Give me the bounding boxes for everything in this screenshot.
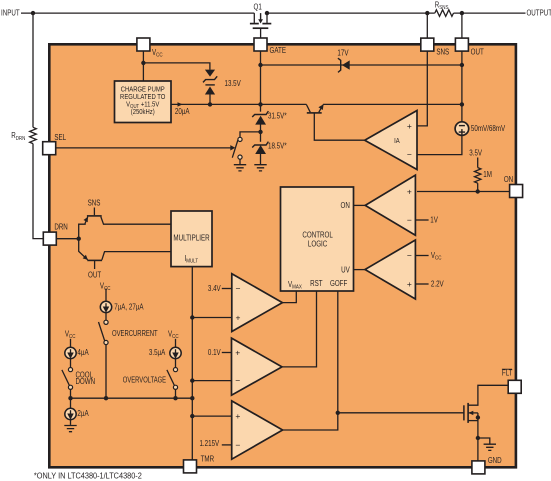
svg-text:IA: IA [394, 137, 400, 145]
svg-text:LOGIC: LOGIC [308, 241, 327, 249]
svg-text:31.5V*: 31.5V* [268, 113, 287, 121]
svg-text:Q1: Q1 [254, 4, 262, 12]
svg-text:−: − [236, 283, 241, 293]
svg-text:4µA: 4µA [77, 350, 88, 358]
svg-text:+: + [235, 347, 240, 357]
svg-text:20µA: 20µA [175, 108, 190, 116]
svg-text:2µA: 2µA [77, 410, 88, 418]
svg-text:DRN: DRN [54, 224, 68, 232]
svg-text:−: − [235, 376, 240, 386]
svg-text:RST: RST [310, 281, 323, 289]
svg-text:UV: UV [341, 267, 350, 275]
svg-text:+: + [407, 279, 412, 289]
svg-text:SEL: SEL [54, 134, 66, 142]
svg-text:GOFF: GOFF [330, 281, 348, 289]
svg-text:OVERVOLTAGE: OVERVOLTAGE [123, 377, 167, 385]
svg-text:3.4V: 3.4V [208, 285, 221, 293]
svg-text:INPUT: INPUT [1, 10, 20, 18]
svg-text:+: + [236, 312, 241, 322]
svg-text:+: + [235, 411, 240, 421]
svg-text:ON: ON [504, 176, 513, 184]
svg-text:3.5µA: 3.5µA [149, 350, 166, 358]
svg-text:1M: 1M [483, 172, 492, 180]
svg-text:MULTIPLIER: MULTIPLIER [173, 235, 209, 243]
svg-text:ON: ON [340, 202, 349, 210]
svg-text:CONTROL: CONTROL [302, 232, 333, 240]
svg-text:+: + [407, 186, 412, 196]
svg-text:GATE: GATE [270, 47, 287, 55]
svg-text:50mV/68mV: 50mV/68mV [471, 125, 506, 133]
svg-text:2.2V: 2.2V [431, 281, 444, 289]
svg-text:7µA, 27µA: 7µA, 27µA [114, 304, 144, 312]
svg-text:OUT: OUT [471, 49, 485, 57]
svg-text:GND: GND [488, 457, 502, 465]
svg-text:−: − [407, 215, 412, 225]
svg-text:FLT: FLT [502, 370, 513, 378]
svg-text:SNS: SNS [88, 200, 101, 208]
svg-text:−: − [407, 250, 412, 260]
svg-text:(250kHz): (250kHz) [131, 108, 155, 116]
svg-text:1.215V: 1.215V [199, 440, 219, 448]
svg-text:OUTPUT: OUTPUT [526, 10, 551, 18]
svg-text:−: − [407, 150, 412, 160]
svg-text:18.5V*: 18.5V* [268, 143, 287, 151]
svg-text:OUT: OUT [88, 272, 102, 280]
svg-text:*ONLY IN LTC4380-1/LTC4380-2: *ONLY IN LTC4380-1/LTC4380-2 [34, 473, 142, 481]
svg-text:TMR: TMR [201, 456, 214, 464]
svg-text:−: − [235, 440, 240, 450]
svg-text:3.5V: 3.5V [469, 150, 482, 158]
svg-text:OVERCURRENT: OVERCURRENT [112, 330, 158, 338]
svg-text:+: + [407, 121, 412, 131]
svg-text:0.1V: 0.1V [208, 349, 221, 357]
svg-text:SNS: SNS [436, 49, 449, 57]
svg-text:17V: 17V [337, 50, 348, 58]
svg-text:1V: 1V [430, 217, 438, 225]
svg-text:DOWN: DOWN [75, 379, 95, 387]
svg-text:13.5V: 13.5V [224, 80, 241, 88]
